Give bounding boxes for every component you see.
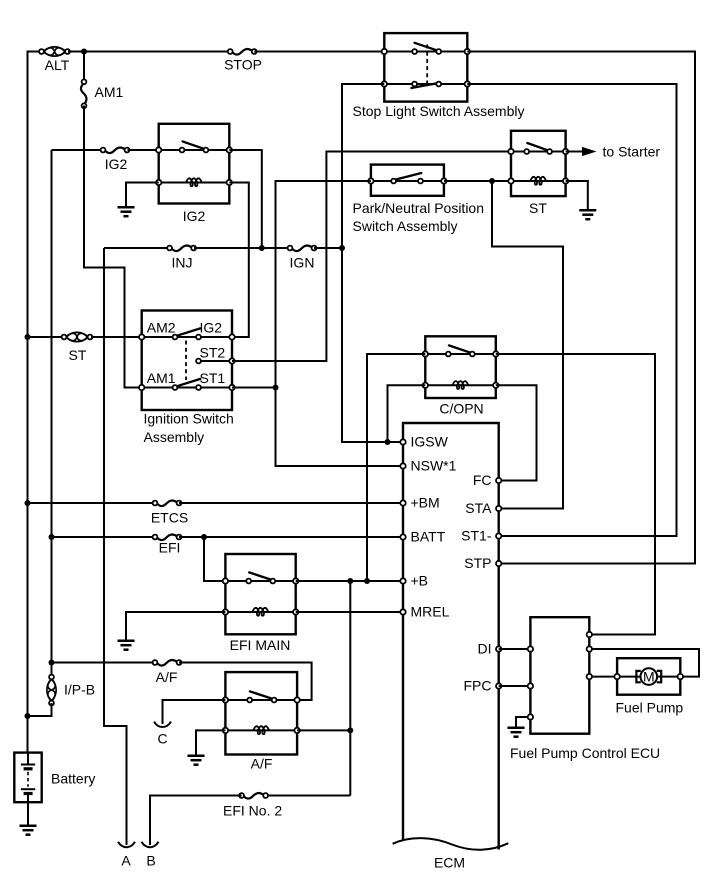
switch blade ST relay <box>527 143 547 150</box>
wire: EFI MAIN feeder down to switch <box>204 537 225 581</box>
svg-text:ST2: ST2 <box>200 344 226 360</box>
ground battery <box>20 826 37 835</box>
wire: INJ feeder from INJ row down to connector A <box>104 248 127 845</box>
terminals FPCE left <box>528 646 533 651</box>
wire: ST relay switch row internal <box>511 151 566 153</box>
svg-text:+BM: +BM <box>411 494 440 510</box>
svg-text:Battery: Battery <box>51 770 95 786</box>
coil A/F relay <box>253 726 269 734</box>
wire: EFI MAIN coil right to MREL pin <box>296 611 403 613</box>
junction: A/F coil on +B branch <box>347 727 353 733</box>
wire: FPCE to fuel pump left <box>589 676 617 678</box>
wire: A/F coil right to +B branch <box>297 729 350 731</box>
fuel pump box <box>617 658 680 695</box>
svg-text:B: B <box>146 852 155 868</box>
contact circles stop row2 <box>412 82 417 87</box>
contact circles EFI MAIN <box>246 579 251 584</box>
terminals P/N switch <box>368 178 373 183</box>
contact circles IG2 relay <box>180 148 185 153</box>
wire: ST1 row to junction <box>232 387 276 389</box>
terminals fuel pump <box>614 674 619 679</box>
terminals EFI MAIN <box>223 578 228 583</box>
svg-text:DI: DI <box>478 640 492 656</box>
wire: C/OPN switch right down to fuel pump control ECU <box>496 354 655 635</box>
wire: INJ to IGN segment <box>194 247 290 249</box>
wire: IG2 relay switch right down to IGN row <box>229 150 261 248</box>
fusible link I/P-B (vertical) <box>47 675 56 706</box>
ground ST relay <box>579 210 596 219</box>
wire: C/OPN coil left down to IGSW node <box>388 385 426 442</box>
terminals FPCE right <box>587 632 592 637</box>
park/neutral position switch box <box>371 165 444 196</box>
battery plate short 2 <box>24 792 33 795</box>
wire: P/N switch row internal <box>371 180 444 182</box>
wire: FPCE to fuel pump outer loop <box>589 649 699 677</box>
wire: stop light switch row1 internal <box>384 51 467 53</box>
battery plate short 1 <box>24 767 33 770</box>
wire: stop row2 right to ST1- pin <box>467 84 676 536</box>
fuse IG2 <box>101 148 130 154</box>
connector A break <box>118 842 135 847</box>
junction: IGSW node <box>385 439 391 445</box>
stop light switch assembly box <box>384 33 467 102</box>
fuse STOP <box>228 49 257 55</box>
svg-text:EFI MAIN: EFI MAIN <box>230 637 291 653</box>
connector C break <box>154 722 171 727</box>
switch blade EFI MAIN <box>249 572 271 579</box>
svg-text:IG2: IG2 <box>183 208 206 224</box>
motor brush left bracket <box>636 671 640 682</box>
ignition switch assembly box <box>142 311 232 411</box>
svg-text:+B: +B <box>411 572 429 588</box>
wire: A/F fuse to A/F relay switch <box>179 663 312 701</box>
junction: ST row tap on battery rail <box>25 334 31 340</box>
junction: IGN output node <box>339 245 345 251</box>
battery dashed middle <box>27 772 29 787</box>
switch blade stop row1 <box>415 43 437 50</box>
junction: ST1 node <box>273 385 279 391</box>
IG2 relay box <box>159 124 230 204</box>
svg-text:Ignition Switch: Ignition Switch <box>144 411 234 427</box>
coil EFI MAIN <box>253 608 269 616</box>
connector B break <box>142 842 159 847</box>
wire: IG2 fuse feeder from I/P-B rail <box>52 149 104 151</box>
wire: stop row2 left to IGN node and down to IGSW <box>342 84 403 442</box>
contact circles ignition switch <box>173 335 178 340</box>
wire: AM1 fuse down to ignition switch AM1 terminal <box>84 106 142 388</box>
wire: IG2 fuse to IG2 relay <box>128 149 159 151</box>
svg-text:BATT: BATT <box>411 528 446 544</box>
arrow to Starter <box>582 147 597 156</box>
wire: STOP fuse to stop light switch <box>254 51 384 53</box>
svg-text:A/F: A/F <box>156 669 178 685</box>
wire: EFI MAIN switch right to +B pin <box>296 580 403 582</box>
switch blade C/OPN <box>449 345 471 352</box>
C/OPN relay box <box>425 336 496 398</box>
wire: fuel pump internal row <box>617 676 680 678</box>
wire: STA feeder <box>492 181 563 509</box>
A/F relay box <box>225 672 297 754</box>
motor brush right bracket <box>657 671 661 682</box>
svg-text:Fuel Pump: Fuel Pump <box>616 699 684 715</box>
svg-text:C: C <box>157 730 167 746</box>
dashed link ignition switch <box>185 341 187 381</box>
wire: ignition ST2 row internal <box>199 360 233 362</box>
terminals IG2 relay <box>156 147 161 152</box>
contact circles P/N switch <box>391 179 396 184</box>
svg-text:AM2: AM2 <box>147 319 176 335</box>
ground A/F relay <box>188 756 205 765</box>
wire: ETCS fuse to +BM pin <box>179 502 403 504</box>
wire: IG2 relay coil row internal <box>159 182 230 184</box>
svg-text:ST1-: ST1- <box>461 527 492 543</box>
fuse A/F <box>153 660 182 666</box>
ground IG2 relay <box>118 207 135 216</box>
svg-text:ETCS: ETCS <box>151 510 188 526</box>
switch blade ignition AM2 <box>177 328 200 335</box>
battery plate long 1 <box>21 764 35 766</box>
wire: C/OPN switch left down to +B node <box>367 354 425 581</box>
wire: EFI fuse to BATT pin <box>179 536 403 538</box>
svg-text:Switch Assembly: Switch Assembly <box>353 218 458 234</box>
ECM pin terminals right edge <box>496 478 501 483</box>
switch blade IG2 relay <box>183 141 204 148</box>
svg-text:FC: FC <box>473 472 492 488</box>
wire: EFI No.2 row right segment <box>266 795 351 797</box>
fuse ETCS <box>153 501 182 507</box>
wire: DI row to fuel pump control ECU <box>499 648 531 650</box>
junction: +B / A-F branch <box>347 578 353 584</box>
coil ST relay <box>530 177 546 185</box>
battery box <box>14 753 41 803</box>
svg-text:IGN: IGN <box>290 254 315 270</box>
svg-text:ST: ST <box>529 200 547 216</box>
battery stub top <box>27 753 29 765</box>
coil IG2 relay <box>186 178 202 186</box>
svg-text:NSW*1: NSW*1 <box>411 457 457 473</box>
svg-text:MREL: MREL <box>411 603 450 619</box>
svg-text:Assembly: Assembly <box>144 429 205 445</box>
wire: stop row1 right to STP pin <box>467 52 695 564</box>
wire: A/F fuse row from I/P-B rail <box>52 662 156 664</box>
svg-text:I/P-B: I/P-B <box>64 681 95 697</box>
svg-text:ECM: ECM <box>434 854 465 870</box>
wire: ST link to ignition AM2 terminal <box>91 336 142 338</box>
svg-text:A/F: A/F <box>251 755 273 771</box>
junction: AM1 tap on top rail <box>81 49 87 55</box>
svg-text:ALT: ALT <box>45 57 70 73</box>
svg-text:Park/Neutral Position: Park/Neutral Position <box>353 200 485 216</box>
svg-text:STA: STA <box>465 500 492 516</box>
motor circle M <box>641 668 658 685</box>
wire: I/P-B link to battery rail <box>28 703 52 716</box>
svg-text:INJ: INJ <box>172 254 193 270</box>
wire: EFI MAIN switch row internal <box>225 580 295 582</box>
svg-text:C/OPN: C/OPN <box>439 401 483 417</box>
wire: A/F switch row internal <box>225 699 297 701</box>
svg-text:M: M <box>643 668 655 684</box>
coil C/OPN <box>453 381 469 389</box>
svg-text:Stop Light Switch Assembly: Stop Light Switch Assembly <box>353 103 525 119</box>
svg-text:STOP: STOP <box>224 57 262 73</box>
svg-text:FPC: FPC <box>464 677 492 693</box>
svg-text:IG2: IG2 <box>105 156 128 172</box>
wire: ST row from battery rail to ignition switch <box>28 336 65 338</box>
wire: IG2 relay switch row internal <box>159 149 230 151</box>
wire: C/OPN switch row internal <box>425 353 496 355</box>
ST relay box <box>511 131 566 196</box>
wire: ST relay coil row internal <box>511 180 566 182</box>
junction: A/F tap on I/P-B rail <box>49 660 55 666</box>
switch blade P/N <box>396 173 421 180</box>
junction: +B / C-OPN branch <box>364 578 370 584</box>
wire: EFI MAIN coil left to ground <box>126 612 225 640</box>
battery stub bottom <box>27 794 29 803</box>
contact circles C/OPN <box>446 352 451 357</box>
svg-text:IGSW: IGSW <box>411 433 449 449</box>
wire: IG2 relay coil to ground <box>126 183 159 207</box>
wire: ignition AM1-ST1 row internal <box>142 387 232 389</box>
contact circles A/F relay <box>247 698 252 703</box>
wire: I/P-B rail vertical <box>51 150 53 677</box>
wire: EFI MAIN coil row internal <box>225 611 295 613</box>
junction: IG2 switch feeder on INJ row <box>259 245 265 251</box>
junction: ST relay coil / STA node <box>489 178 495 184</box>
wire: A/F coil left to ground <box>196 730 225 754</box>
wire: battery to ground <box>27 802 29 824</box>
contact circles stop row1 <box>412 49 417 54</box>
wire: AM1 feed stub <box>83 52 85 82</box>
wire: A/F switch left to connector C <box>163 700 226 724</box>
switch blade stop row2 <box>411 83 436 88</box>
wire: INJ row left <box>104 247 170 249</box>
terminals ignition switch <box>139 334 144 339</box>
wire: A/F coil row internal <box>225 729 297 731</box>
wire: ST relay switch to starter arrow <box>566 151 582 153</box>
wire: ST relay coil to ground <box>566 181 588 209</box>
svg-text:IG2: IG2 <box>200 319 223 335</box>
wire: ST2 row up to ST relay switch <box>232 152 511 362</box>
terminals stop light switch <box>382 49 387 54</box>
fuse IGN <box>288 246 317 252</box>
ECM bottom break wave <box>393 838 509 850</box>
wire: FPC row to fuel pump control ECU <box>499 685 531 687</box>
wire: C/OPN coil right down to FC pin <box>496 385 537 480</box>
wire: FPCE ground pin to ground <box>516 717 530 727</box>
wire: EFI No.2 fuse to connector B <box>150 796 242 846</box>
wire: stop light switch row2 internal <box>384 83 467 85</box>
wire: battery rail (far-left vertical) <box>28 52 42 754</box>
fusible link ST <box>62 332 93 341</box>
svg-text:EFI No. 2: EFI No. 2 <box>223 802 282 818</box>
switch blade A/F relay <box>250 691 272 698</box>
junction: EFI MAIN feeder tap <box>201 534 207 540</box>
svg-text:ST1: ST1 <box>200 370 226 386</box>
svg-text:AM1: AM1 <box>95 84 124 100</box>
terminals ST relay <box>508 149 513 154</box>
wire: IG2 relay coil right down to ignition IG2 terminal <box>229 183 249 338</box>
junction: I/P-B return to battery rail <box>25 713 31 719</box>
wire: top rail ALT to STOP fuse <box>68 51 230 53</box>
wire: ignition AM2-IG2 row internal <box>142 336 232 338</box>
fuse EFI No.2 <box>239 793 268 799</box>
fuse INJ <box>167 246 196 252</box>
fuse EFI <box>153 535 182 541</box>
junction: ETCS tap on battery rail <box>25 500 31 506</box>
contact circles ST relay <box>524 149 529 154</box>
wire: IGN fuse to vertical node <box>314 247 342 249</box>
wire: EFI row from I/P-B rail <box>52 536 156 538</box>
fuse AM1 (vertical) <box>81 79 87 108</box>
svg-text:to Starter: to Starter <box>603 143 661 159</box>
ECM pin terminals left edge <box>400 439 405 444</box>
wire: P/N switch right to ST relay coil <box>444 180 511 182</box>
wire: +B branch down to EFI No.2 row <box>349 581 351 796</box>
terminals A/F relay <box>223 697 228 702</box>
fuel pump control ECU box <box>530 617 589 734</box>
fusible link ALT <box>39 47 70 56</box>
dashed link stop light switch <box>426 45 428 87</box>
terminals C/OPN <box>423 351 428 356</box>
svg-text:Fuel Pump Control ECU: Fuel Pump Control ECU <box>510 745 660 761</box>
wire: C/OPN coil row internal <box>425 384 496 386</box>
ground fuel pump control ECU <box>508 728 525 737</box>
wire: P/N switch left down to NSW*1 <box>276 181 404 466</box>
ground EFI MAIN <box>118 641 135 650</box>
svg-text:EFI: EFI <box>159 540 181 556</box>
junction: EFI tap on I/P-B rail <box>49 534 55 540</box>
svg-text:A: A <box>121 852 131 868</box>
svg-text:AM1: AM1 <box>147 370 176 386</box>
battery plate long 2 <box>21 788 35 790</box>
svg-text:STP: STP <box>464 555 491 571</box>
svg-text:ST: ST <box>69 347 87 363</box>
EFI MAIN relay box <box>225 554 295 634</box>
switch blade ignition AM1 <box>177 379 200 386</box>
wire: ETCS row from battery rail to +BM pin <box>28 502 156 504</box>
ECM box outline <box>403 423 499 850</box>
